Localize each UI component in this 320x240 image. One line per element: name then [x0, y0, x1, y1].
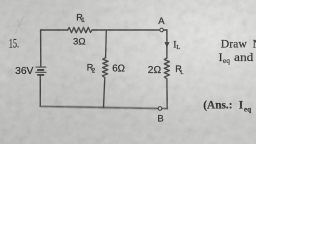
pencil smudge near problem number — [14, 17, 26, 34]
wire left lower — [39, 76, 41, 106]
current arrow IL — [165, 42, 169, 47]
paper grain — [0, 0, 256, 144]
resistor R1 zigzag — [68, 27, 92, 32]
node A terminal circle — [160, 28, 164, 32]
resistor RL zigzag — [164, 58, 169, 80]
wire left upper — [40, 30, 42, 66]
wire top-right segment — [92, 29, 167, 31]
battery V1 36V plates — [36, 67, 46, 75]
wire middle branch lower — [104, 78, 105, 108]
wire bottom — [40, 106, 167, 109]
wire middle branch upper — [105, 30, 108, 58]
node B terminal circle — [158, 107, 162, 111]
wire right branch lower — [166, 80, 168, 109]
wire top-left segment — [41, 29, 68, 31]
wire right branch upper — [166, 30, 168, 58]
resistor R2 zigzag — [102, 58, 108, 78]
